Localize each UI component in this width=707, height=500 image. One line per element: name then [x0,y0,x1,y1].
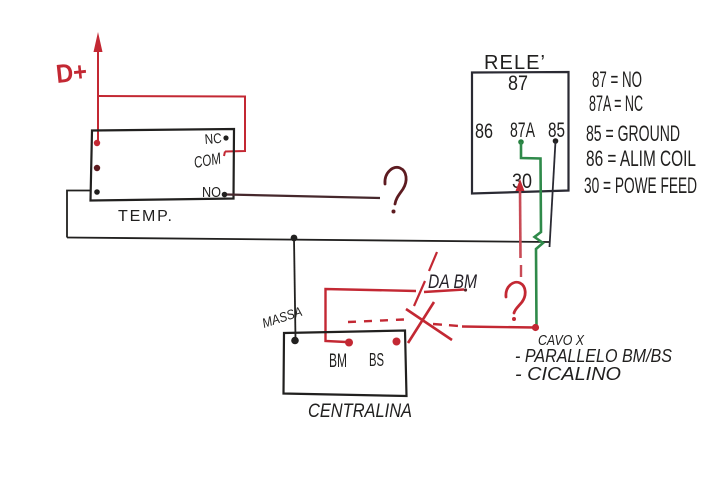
component: TEMP switch box [91,129,235,201]
terminal dot 1 (red) on TEMP [94,140,100,146]
wire: D+ red supply arrow [97,48,99,143]
pin 85 terminal dot [553,138,559,144]
terminal BM dot (red) [345,339,353,347]
wire: red horizontal into cavo X node [462,327,535,328]
svg-text:TEMP.: TEMP. [118,208,172,225]
pin 87A terminal dot (green) [518,139,524,145]
wire: black from 85 down across bus [550,141,556,247]
arrowhead red at 30 [516,179,525,191]
wire: horizontal ground bus [67,238,550,243]
junction: red tick at COM [224,152,225,157]
terminal MASSA dot on CENTRALINA [291,337,299,345]
svg-text:87A: 87A [510,119,535,142]
wire: junction down to MASSA terminal [294,238,296,339]
svg-text:D+: D+ [54,56,88,89]
pin NC terminal dot [223,135,228,140]
svg-text:MASSA: MASSA [260,304,304,331]
wire: red from 30 downward [519,189,522,258]
symbol: red X (crossed connection) [406,302,452,343]
svg-text:86 = ALIM COIL: 86 = ALIM COIL [586,146,696,171]
svg-text:- CICALINO: - CICALINO [515,364,621,384]
svg-text:CENTRALINA: CENTRALINA [308,401,412,422]
svg-text:BS: BS [369,350,384,370]
wire: red dashed line left of X [348,320,404,323]
svg-text:85 = GROUND: 85 = GROUND [586,121,680,146]
svg-text:30 = POWE FEED: 30 = POWE FEED [584,173,697,198]
symbol: red question mark near cavo X [506,282,525,321]
svg-text:COM: COM [193,150,223,172]
wire: maroon from NO to question mark [227,195,380,199]
wire: red from BM terminal up and right [326,289,417,342]
arrowhead D+ [94,32,103,52]
symbol: maroon question mark [385,167,406,213]
wire: TEMP left terminal to ground bus [67,191,91,238]
svg-text:86: 86 [475,120,493,143]
symbol: red slash break (da BM) [414,252,437,306]
component: CENTRALINA box [284,331,407,397]
svg-text:87 = NO: 87 = NO [592,67,642,92]
terminal dot 3 (black) on TEMP [94,189,100,195]
component: RELE relay box [472,72,569,194]
wire: red from D+ line to COM terminal [98,96,245,152]
svg-text:87A = NC: 87A = NC [589,91,643,116]
wire: red dash below 30 [520,265,522,277]
svg-text:- PARALLELO BM/BS: - PARALLELO BM/BS [515,346,672,366]
underline DA BM [424,290,464,293]
wire: green from 87A down to cavo X node [521,142,543,327]
svg-text:RELE’: RELE’ [484,52,545,74]
wire: red dashes right of X [433,324,459,326]
svg-text:BM: BM [329,351,347,372]
svg-text:NC: NC [204,130,222,147]
node: cavo X junction dot (red) [532,324,539,331]
terminal dot 2 (maroon) on TEMP [94,165,100,171]
pin NO terminal dot [222,192,228,198]
svg-text:NO: NO [202,184,221,201]
terminal BS dot (red) [393,338,401,346]
svg-text:87: 87 [508,72,528,95]
junction node on ground bus [291,235,298,242]
